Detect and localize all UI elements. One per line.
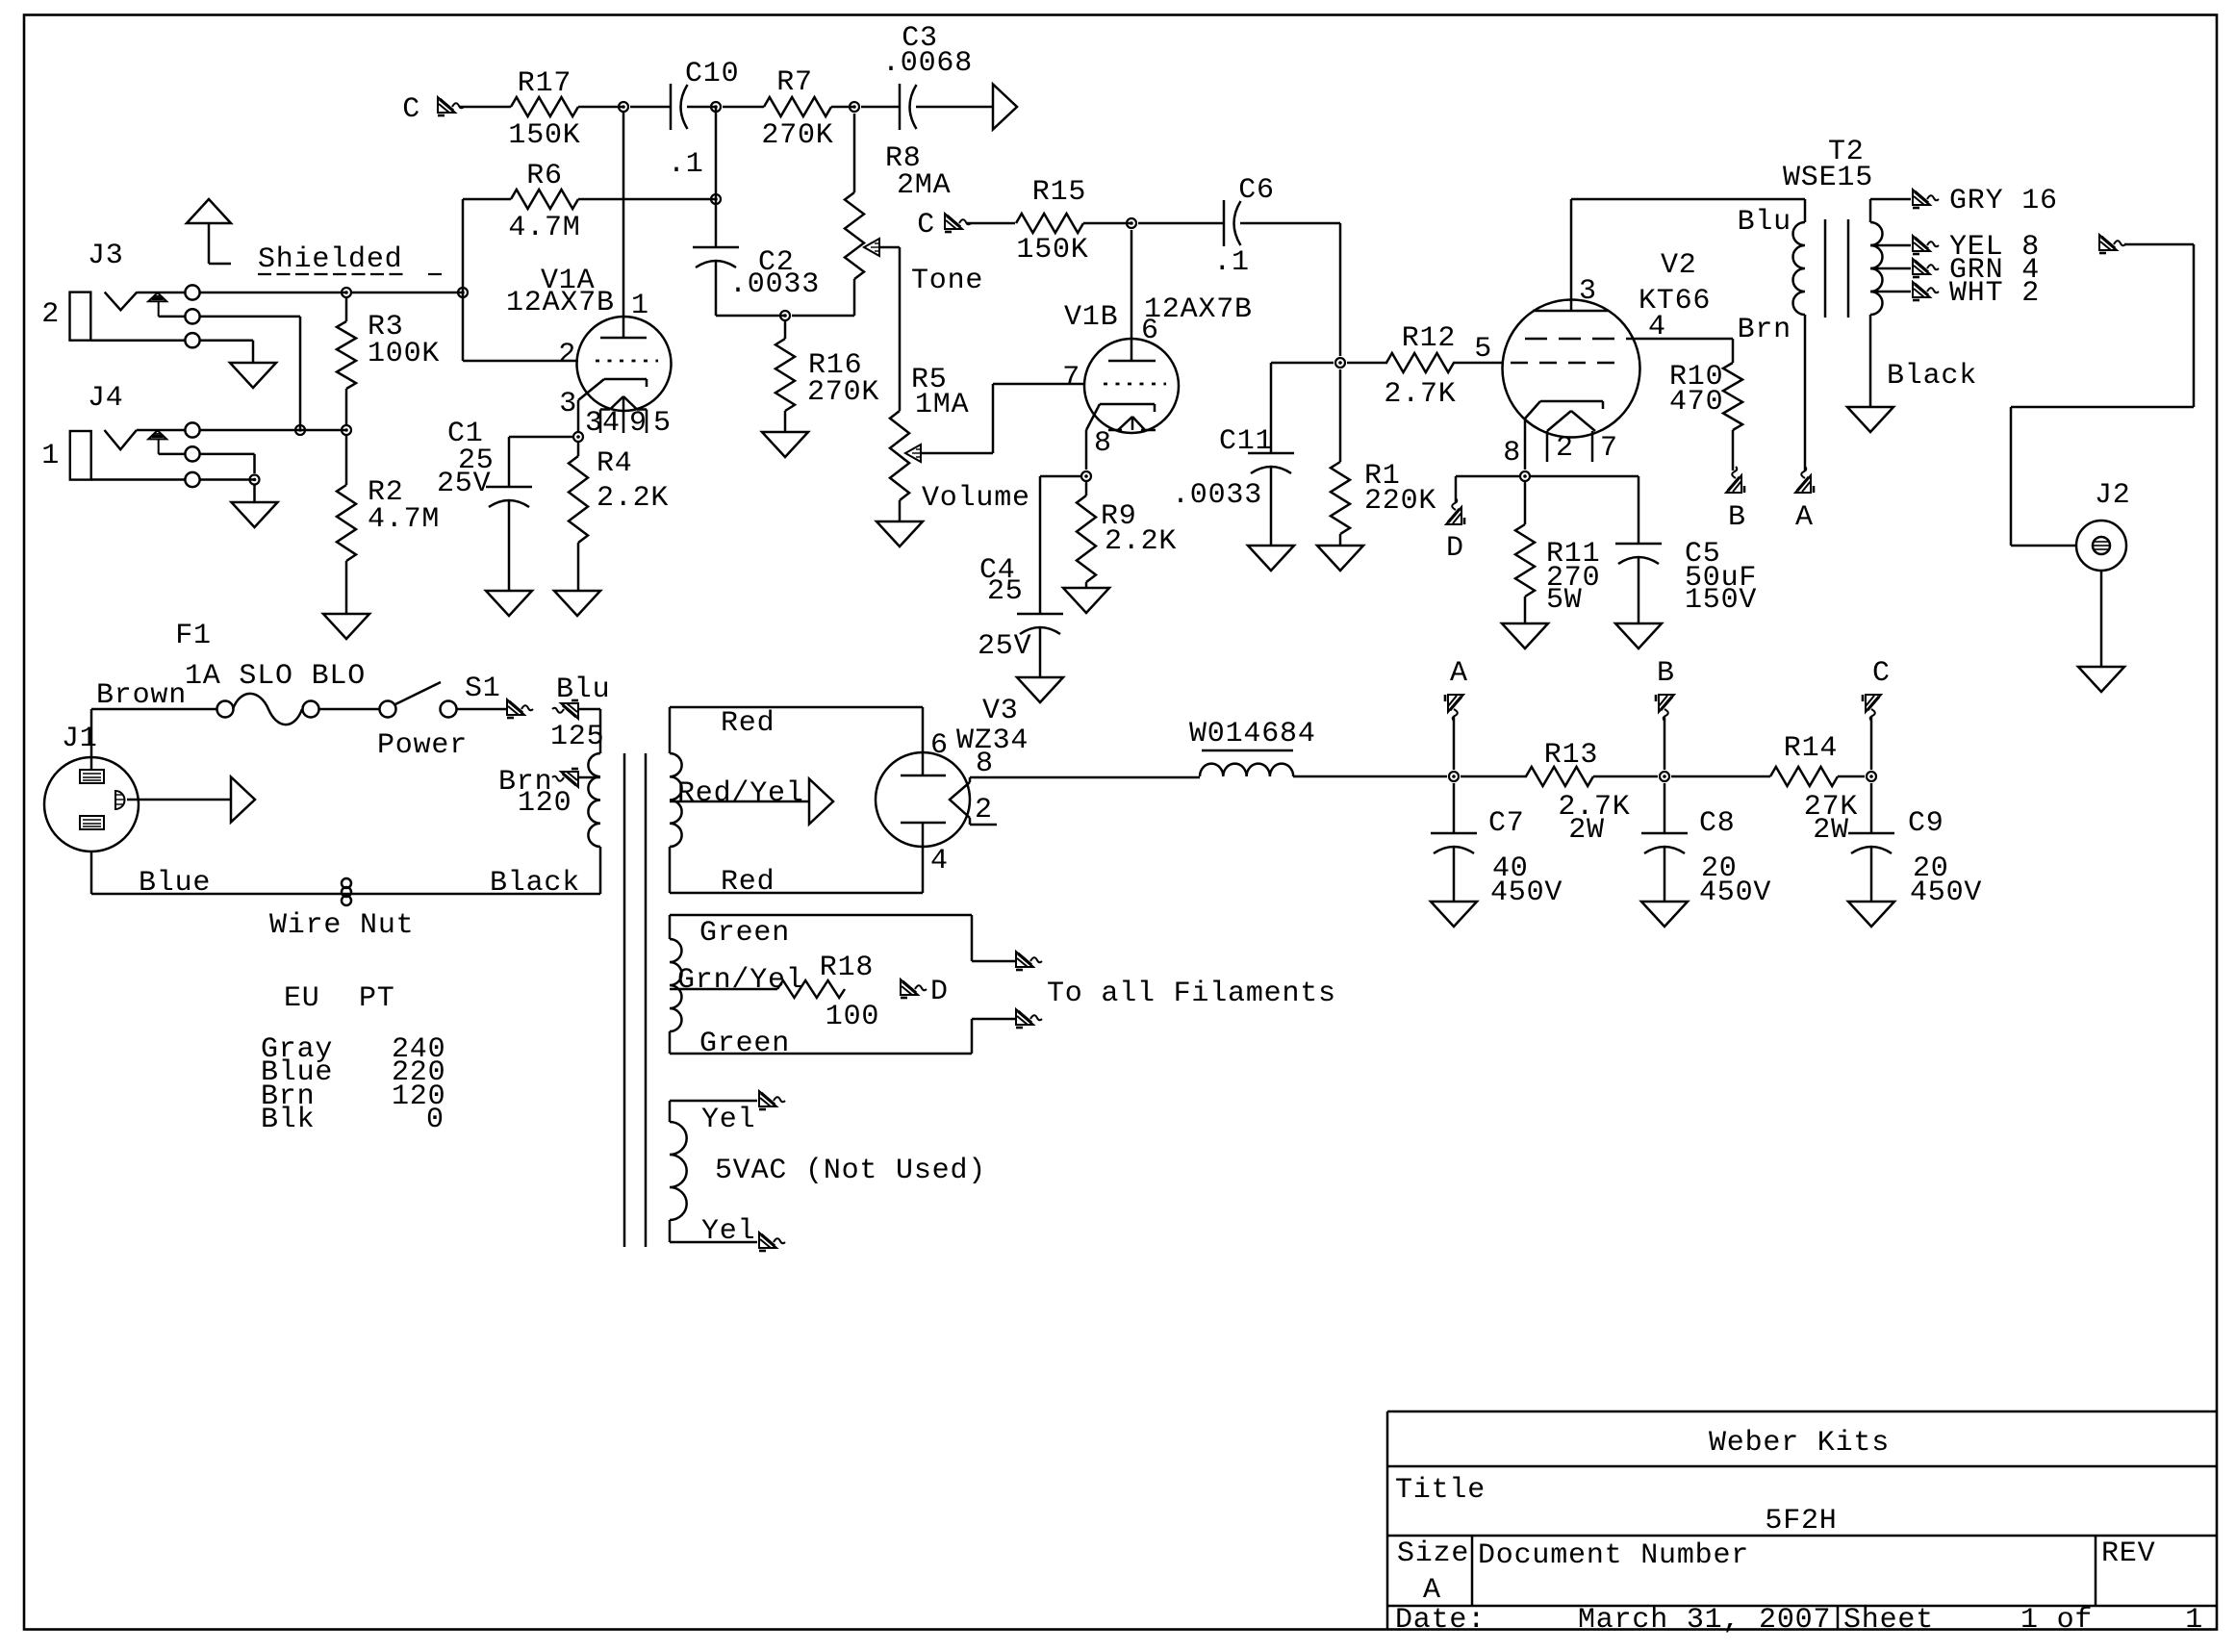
ground below R4	[554, 591, 600, 616]
svg-text:Sheet: Sheet	[1843, 1604, 1934, 1637]
resistor R9 2.2K	[1085, 482, 1088, 496]
J4 tip wire	[137, 429, 185, 432]
flag S1 out	[507, 699, 533, 718]
svg-text:Weber Kits: Weber Kits	[1709, 1427, 1890, 1460]
svg-text:7: 7	[1600, 432, 1618, 465]
wire R8 top	[853, 114, 856, 192]
wire J2 to ground	[2100, 571, 2103, 667]
svg-text:1A SLO BLO: 1A SLO BLO	[185, 660, 366, 693]
resistor R15 150K	[1016, 214, 1083, 233]
resistor R16 270K	[784, 321, 787, 339]
wire flag to J2	[2124, 243, 2194, 246]
wire R17 to node	[578, 106, 623, 109]
J1 line prong	[80, 770, 104, 783]
svg-text:2: 2	[975, 794, 993, 826]
title block frame	[1387, 1411, 2217, 1413]
wire Blu to T1 primary	[578, 708, 600, 711]
svg-text:R14: R14	[1784, 732, 1838, 765]
svg-text:Green: Green	[699, 1028, 790, 1060]
ground below C7	[1431, 902, 1477, 927]
node D flag at V2	[1446, 498, 1464, 524]
wire A up	[1453, 717, 1456, 770]
svg-text:D: D	[930, 976, 949, 1008]
ground below C11	[1248, 546, 1294, 571]
wire Brn tap	[578, 776, 600, 779]
svg-text:100K: 100K	[368, 338, 440, 370]
svg-text:B: B	[1657, 657, 1675, 690]
capacitor C1 25/25V	[486, 486, 532, 489]
wire R9 to ground	[1085, 582, 1088, 588]
junction node grid riser	[458, 288, 468, 297]
tube V1B envelope	[1084, 339, 1179, 433]
tube V1A envelope	[577, 317, 672, 411]
junction node A	[1449, 772, 1459, 781]
svg-text:Brown: Brown	[96, 679, 187, 712]
svg-text:0: 0	[426, 1104, 445, 1136]
R8 wiper arrow	[864, 239, 879, 256]
wire J1 ground to earth arrow	[127, 799, 231, 801]
V1A heater pin box 3|4|9|5	[600, 408, 610, 411]
junction node top-2	[711, 102, 721, 112]
svg-text:V3: V3	[982, 695, 1019, 727]
V1B cathode	[1100, 403, 1155, 406]
T2 tap GRN 4	[1870, 267, 1911, 270]
svg-text:2.2K: 2.2K	[1105, 525, 1177, 558]
wire R15 to node	[1083, 222, 1131, 225]
svg-text:V2: V2	[1661, 249, 1697, 282]
svg-text:3: 3	[1579, 275, 1597, 308]
svg-text:Power: Power	[377, 729, 468, 762]
wire C6 to corner down	[1240, 222, 1340, 225]
svg-text:R15: R15	[1032, 176, 1086, 209]
svg-text:100: 100	[826, 1001, 879, 1033]
svg-text:D: D	[1446, 532, 1464, 565]
junction node top-3	[850, 102, 859, 112]
svg-text:March 31, 2007: March 31, 2007	[1578, 1604, 1831, 1637]
wire J1 line up	[90, 709, 93, 770]
svg-text:12AX7B: 12AX7B	[506, 287, 615, 319]
J1 ground pin	[115, 791, 125, 809]
svg-text:5F2H: 5F2H	[1765, 1505, 1837, 1538]
svg-text:C10: C10	[685, 58, 739, 90]
junction node top-1	[619, 102, 628, 112]
ground below R1	[1317, 546, 1363, 571]
ground below J4	[232, 502, 278, 527]
svg-text:5: 5	[653, 407, 672, 440]
ground below C9	[1848, 902, 1894, 927]
svg-text:470: 470	[1669, 386, 1723, 419]
svg-text:2W: 2W	[1568, 814, 1605, 847]
wire node to C6	[1138, 222, 1224, 225]
wire rail to R8 bottom	[792, 315, 854, 318]
wire cathode node left to D	[1456, 475, 1519, 478]
filament tap upper	[971, 915, 974, 961]
svg-text:150K: 150K	[508, 119, 580, 152]
svg-text:450V: 450V	[1699, 877, 1771, 909]
ground below J2	[2078, 667, 2124, 692]
svg-text:3: 3	[559, 388, 577, 420]
wire R12 to V2 grid	[1453, 362, 1503, 365]
ground below C4	[1017, 677, 1063, 702]
junction node V1B plate	[1127, 218, 1136, 228]
wire R5 bottom to ground	[899, 500, 902, 521]
wire node to grid riser	[351, 292, 463, 294]
V3 plate pin 4	[922, 823, 925, 893]
svg-text:C8: C8	[1699, 807, 1736, 840]
junction node R2 top	[342, 425, 351, 435]
wire T2 secondary bottom	[1869, 315, 1872, 407]
svg-text:6: 6	[930, 729, 949, 762]
wire C up	[1870, 717, 1873, 770]
svg-text:2.7K: 2.7K	[1384, 378, 1456, 411]
wire R7 to node	[831, 106, 854, 109]
svg-text:.1: .1	[1213, 246, 1250, 279]
wire node to C3	[861, 106, 900, 109]
svg-text:Document Number: Document Number	[1478, 1539, 1749, 1572]
wire node B to R14	[1671, 775, 1770, 778]
ground below R2	[323, 614, 369, 639]
V2 screen grid g2	[1525, 338, 1547, 341]
capacitor C4 25/25V	[1017, 613, 1063, 616]
svg-text:2W: 2W	[1813, 814, 1849, 847]
plug J1 body	[44, 757, 139, 851]
svg-text:Grn/Yel: Grn/Yel	[677, 964, 804, 997]
J3 shorting contact	[148, 292, 166, 301]
T2 tap WHT 2	[1870, 291, 1911, 293]
T1 HV secondary winding	[670, 753, 682, 847]
svg-text:Red: Red	[721, 866, 775, 899]
svg-text:Date:: Date:	[1395, 1604, 1486, 1637]
wire J3 sleeve to ground	[90, 339, 185, 342]
svg-text:Yel: Yel	[701, 1215, 755, 1248]
wire C9 to ground	[1870, 848, 1873, 902]
svg-text:Blue: Blue	[139, 867, 211, 900]
HV center tap arrow	[670, 801, 809, 803]
J4 tip contact	[105, 430, 137, 449]
svg-text:2: 2	[1556, 432, 1574, 465]
switch S1 Power	[380, 701, 396, 718]
shield up arrow	[187, 199, 231, 223]
svg-text:C: C	[1872, 657, 1891, 690]
wire C7 to ground	[1453, 848, 1456, 902]
svg-text:150V: 150V	[1685, 584, 1757, 617]
svg-text:1MA: 1MA	[915, 389, 969, 421]
flag D at R18	[901, 979, 927, 998]
wire J4 sleeve to ground	[253, 484, 256, 502]
wire R14 to node C	[1838, 775, 1865, 778]
capacitor C6 .1	[1223, 200, 1226, 246]
svg-text:1: 1	[631, 290, 649, 322]
wire node to C10	[630, 106, 671, 109]
svg-text:C: C	[917, 209, 935, 241]
svg-text:.0033: .0033	[1172, 479, 1262, 512]
wire V2 plate to T2 primary	[1571, 198, 1805, 201]
junction node J4 sleeve	[250, 475, 260, 485]
svg-text:V1B: V1B	[1064, 301, 1118, 334]
wire C10 branch down	[715, 107, 718, 199]
wire bottom Blue/Black	[90, 851, 93, 894]
svg-text:C9: C9	[1908, 807, 1944, 840]
flag Blu in	[552, 700, 578, 719]
wire C3 to output arrow	[916, 106, 993, 109]
svg-text:Blk: Blk	[261, 1104, 315, 1136]
capacitor C9 20/450V	[1870, 783, 1873, 833]
svg-text:W014684: W014684	[1189, 718, 1316, 750]
svg-text:25V: 25V	[437, 468, 491, 500]
J3 terminal circles	[185, 285, 199, 299]
junction node V1B cathode	[1081, 471, 1091, 481]
potentiometer R8 2MA (Tone)	[845, 192, 864, 279]
wire J3 tip to node	[200, 292, 346, 294]
resistor R14 27K 2W	[1770, 767, 1838, 786]
junction node C	[1867, 772, 1876, 781]
node A flag under T2	[1795, 467, 1814, 493]
wire C4 to ground	[1039, 628, 1042, 677]
wire node to C11	[1271, 362, 1334, 365]
wire cathode node right to C5	[1531, 475, 1639, 478]
resistor R1 220K	[1339, 369, 1342, 462]
wire V1A grid riser	[462, 199, 465, 361]
wire J4 sleeve	[91, 478, 185, 481]
wire R8 bottom	[853, 279, 856, 316]
tube V2 envelope	[1503, 300, 1640, 438]
svg-text:5W: 5W	[1546, 584, 1583, 617]
V3 plate pin 6	[922, 707, 925, 775]
filament tap lower	[971, 1019, 974, 1054]
svg-text:2: 2	[41, 298, 60, 331]
V3 cathode	[950, 782, 970, 818]
svg-text:8: 8	[976, 748, 994, 780]
svg-text:25: 25	[987, 575, 1024, 608]
ground below R5	[877, 521, 923, 546]
ground below T2 secondary	[1847, 407, 1893, 432]
resistor R12 2.7K	[1386, 353, 1454, 372]
svg-text:C: C	[402, 93, 420, 126]
ground below R16	[762, 432, 808, 457]
resistor R2 4.7M	[345, 435, 348, 485]
svg-text:125: 125	[550, 721, 604, 753]
T2 tap GRY 16	[1869, 199, 1872, 222]
svg-text:450V: 450V	[1490, 877, 1563, 909]
V2 plate pin 3	[1570, 199, 1573, 311]
svg-text:150K: 150K	[1016, 234, 1088, 267]
green loop top	[669, 915, 672, 939]
svg-text:7: 7	[1062, 362, 1080, 394]
svg-text:270K: 270K	[807, 376, 879, 409]
svg-text:4.7M: 4.7M	[508, 212, 580, 244]
wire cathode to C4	[1040, 475, 1080, 478]
junction node V1A cathode	[573, 432, 583, 442]
svg-text:6: 6	[1141, 315, 1159, 347]
wire C5 to ground	[1638, 558, 1640, 623]
svg-text:R13: R13	[1544, 739, 1598, 772]
wire J3 ring down	[200, 316, 300, 318]
svg-text:Title: Title	[1395, 1474, 1486, 1507]
svg-text:PT: PT	[359, 982, 395, 1015]
J3 tip contact	[105, 292, 138, 311]
svg-text:25V: 25V	[978, 630, 1031, 663]
wire fuse to switch	[318, 708, 380, 711]
svg-text:WSE15: WSE15	[1783, 162, 1873, 194]
wire R4 to ground	[577, 543, 580, 591]
svg-text:1 of: 1 of	[2020, 1604, 2093, 1637]
junction node R3 top	[342, 288, 351, 297]
V1B heater	[1118, 417, 1132, 430]
capacitor C2 .0033	[693, 246, 739, 249]
resistor R3 100K	[345, 297, 348, 321]
J3 tip wire	[137, 292, 185, 294]
svg-text:WHT 2: WHT 2	[1949, 277, 2040, 310]
svg-text:3: 3	[585, 407, 603, 440]
wire R5 wiper to V1B grid	[921, 452, 993, 455]
svg-text:2.2K: 2.2K	[597, 482, 669, 515]
svg-text:R17: R17	[518, 67, 572, 100]
svg-text:Red/Yel: Red/Yel	[677, 777, 804, 810]
capacitor C10 .1	[670, 84, 673, 130]
svg-text:8: 8	[1503, 437, 1521, 470]
svg-text:Size: Size	[1397, 1538, 1469, 1570]
junction node R6/C2	[711, 194, 721, 204]
V1A cathode	[604, 378, 647, 381]
earth arrow	[231, 777, 255, 823]
jack J3 body	[70, 292, 91, 341]
ground below R11	[1502, 623, 1548, 648]
svg-text:C7: C7	[1488, 807, 1525, 840]
svg-text:REV: REV	[2101, 1538, 2155, 1570]
HV loop bottom Red	[669, 847, 672, 893]
capacitor C3 .0068	[899, 84, 902, 130]
svg-text:R6: R6	[526, 160, 563, 192]
wire C11 to ground	[1270, 468, 1273, 546]
svg-text:5VAC (Not Used): 5VAC (Not Used)	[715, 1155, 986, 1187]
flag to J2	[2099, 235, 2125, 253]
wire node to R12	[1347, 362, 1387, 365]
svg-text:R7: R7	[776, 66, 813, 99]
svg-text:450V: 450V	[1910, 877, 1982, 909]
resistor R17	[511, 97, 578, 116]
wire R11 to ground	[1524, 597, 1527, 623]
wire switch to flag	[456, 708, 507, 711]
green loop bottom	[669, 1031, 672, 1054]
svg-text:9: 9	[629, 407, 648, 440]
svg-text:Tone: Tone	[911, 265, 983, 297]
T2 tap YEL 8	[1870, 244, 1911, 247]
V1A plate pin 1	[623, 112, 625, 338]
svg-text:S1: S1	[465, 673, 501, 705]
svg-text:Blu: Blu	[556, 674, 610, 706]
wire C1 to ground	[508, 501, 511, 591]
svg-text:A: A	[1450, 657, 1468, 690]
svg-text:R18: R18	[820, 952, 874, 984]
svg-text:4: 4	[930, 845, 949, 877]
wire choke to node A	[1293, 775, 1447, 778]
svg-text:B: B	[1728, 501, 1746, 534]
wire T2 primary bottom to A	[1804, 315, 1807, 470]
wire R1 to ground	[1339, 534, 1342, 546]
svg-text:Green: Green	[699, 917, 790, 950]
svg-text:C11: C11	[1219, 425, 1273, 458]
ground below R9	[1063, 588, 1109, 613]
wire node A to R13	[1461, 775, 1527, 778]
wire R16 to ground	[784, 411, 787, 432]
ground below C1	[486, 591, 532, 616]
J4 switch to ring wire	[159, 453, 185, 456]
svg-text:2: 2	[558, 339, 576, 371]
capacitor C7 40/450V	[1453, 783, 1456, 833]
jack J4 body	[70, 431, 91, 480]
wire nut	[342, 878, 351, 888]
J1 neutral prong	[80, 816, 104, 829]
T1 core	[623, 753, 626, 1247]
resistor R4 2.2K	[577, 442, 580, 456]
ground below C5	[1615, 623, 1662, 648]
capacitor C8 20/450V	[1664, 783, 1666, 833]
svg-text:C6: C6	[1238, 174, 1275, 207]
svg-text:2MA: 2MA	[897, 169, 951, 202]
wire J4 tip row	[200, 429, 346, 432]
wire R2 to ground	[345, 561, 348, 614]
tube V3 envelope	[876, 752, 970, 847]
svg-text:Blu: Blu	[1738, 206, 1791, 239]
wire J1 to fuse	[91, 708, 217, 711]
wire C10 to node	[687, 106, 716, 109]
svg-text:220K: 220K	[1364, 485, 1436, 518]
svg-text:Red: Red	[721, 707, 775, 740]
ground below J3	[230, 363, 276, 388]
resistor R13 2.7K 2W	[1526, 767, 1593, 786]
svg-text:1: 1	[41, 440, 60, 472]
svg-text:Wire Nut: Wire Nut	[269, 909, 414, 942]
V2 heater pins 2 7	[1546, 431, 1549, 462]
svg-text:R12: R12	[1402, 322, 1456, 355]
capacitor C11 .0033	[1248, 452, 1294, 455]
junction node R12/R1	[1335, 358, 1345, 368]
V2 control grid g1	[1511, 362, 1528, 365]
svg-text:12AX7B: 12AX7B	[1144, 293, 1253, 326]
svg-text:F1: F1	[175, 620, 212, 652]
svg-text:To all Filaments: To all Filaments	[1047, 978, 1336, 1010]
wire cathode to C1	[509, 436, 573, 439]
junction node R16 top	[780, 311, 790, 320]
wire R13 to node B	[1593, 775, 1658, 778]
junction node V2 cathode	[1520, 471, 1530, 481]
T1 6.3V winding	[670, 939, 681, 1031]
svg-text:A: A	[1795, 501, 1814, 534]
T2 primary winding	[1793, 222, 1805, 315]
junction node J3-ring/J4-tip	[295, 425, 305, 435]
svg-text:Brn: Brn	[1738, 314, 1791, 346]
V2 cathode	[1540, 400, 1603, 403]
R5 wiper arrow	[905, 445, 921, 462]
svg-text:R4: R4	[597, 447, 633, 480]
resistor R6 4.7M	[511, 190, 578, 209]
node B flag under R10	[1726, 467, 1744, 493]
svg-text:4.7M: 4.7M	[368, 503, 440, 536]
svg-text:EU: EU	[284, 982, 320, 1015]
V1A heater	[610, 396, 623, 410]
output arrow right	[993, 85, 1017, 130]
wire R8 wiper to R5 top	[879, 246, 900, 249]
5V top Yel	[669, 1101, 672, 1122]
T2 core	[1824, 219, 1827, 318]
T2 secondary winding	[1870, 222, 1882, 315]
svg-text:J3: J3	[88, 240, 124, 272]
svg-text:J2: J2	[2095, 479, 2131, 512]
T1 5V winding	[670, 1122, 687, 1220]
J4 shorting contact	[148, 430, 166, 439]
svg-text:1: 1	[2185, 1604, 2203, 1637]
wire T1 primary bottom	[599, 847, 602, 894]
